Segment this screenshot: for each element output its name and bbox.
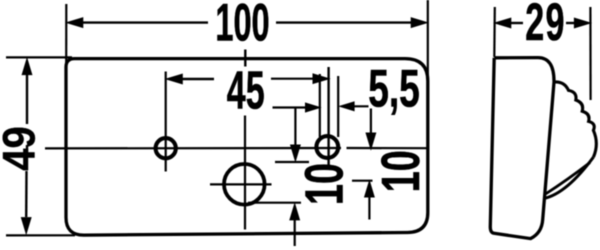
dim 10 right: up arrow with tail <box>368 196 370 220</box>
dim 45 line left with arrow <box>180 78 214 80</box>
svg-text:5,5: 5,5 <box>368 59 420 118</box>
dim 100 line left with arrow <box>80 21 208 23</box>
svg-text:10: 10 <box>294 163 354 205</box>
big circle horizontal crosshair <box>210 183 272 185</box>
svg-text:45: 45 <box>227 59 265 120</box>
label 5,5 <box>368 59 420 118</box>
side view lens scallops <box>554 82 596 157</box>
dim 10 right: vertical line with down arrow <box>370 109 372 135</box>
svg-text:29: 29 <box>525 0 566 52</box>
dim 49 dimension line vertical with arrows <box>26 75 28 124</box>
hole circle small right <box>316 136 338 158</box>
label 10 left rotated <box>294 163 354 205</box>
small hole vertical centerline (45 extension) <box>327 67 329 166</box>
dim 100 extension line right <box>427 0 429 85</box>
dim 49 extension line top <box>6 56 72 58</box>
center tick at top edge <box>244 50 246 67</box>
label 49 rotated <box>0 126 45 171</box>
dim 5,5 right arrow tail <box>352 105 369 107</box>
dim 10 left: extension line bottom <box>248 202 301 204</box>
svg-text:100: 100 <box>215 0 269 53</box>
dim 10 left: extension line top <box>275 161 309 163</box>
dim 100 line right with arrow <box>276 21 413 23</box>
dim 10 left: up arrow with tail <box>294 219 296 246</box>
dim 10 left: vertical line with down arrow <box>294 108 296 146</box>
svg-text:10: 10 <box>370 150 430 192</box>
left hole vertical centerline (45 extension) <box>165 72 167 172</box>
side view lens inner arc <box>546 163 591 195</box>
label 10 right rotated <box>370 150 430 192</box>
dim 29 extension line right <box>589 7 591 100</box>
horizontal centerline through holes <box>45 147 428 150</box>
label 29 <box>525 0 566 52</box>
dim 29 line left with arrow <box>508 22 523 24</box>
5,5 extension line left <box>319 74 321 137</box>
dim 29 extension line left (merges with body edge) <box>493 7 496 57</box>
front view outline <box>66 59 428 236</box>
big circle <box>224 164 265 205</box>
side view body outline <box>490 58 554 239</box>
dim 10 right: extension line <box>352 180 373 182</box>
svg-text:49: 49 <box>0 126 45 171</box>
dim 45 line right with arrow <box>271 78 316 80</box>
dim 29 line right with arrow <box>566 22 576 24</box>
label 100 <box>215 0 269 53</box>
label 45 <box>227 59 265 120</box>
dim 5,5 left arrow tail <box>273 106 309 108</box>
big circle vertical centerline <box>244 116 246 230</box>
5,5 extension line right <box>337 76 339 137</box>
side view lens outer arc <box>544 157 594 199</box>
dim 100 extension line left <box>65 4 67 63</box>
hole circle left <box>156 138 176 158</box>
dim 49 extension line bottom <box>6 234 75 236</box>
